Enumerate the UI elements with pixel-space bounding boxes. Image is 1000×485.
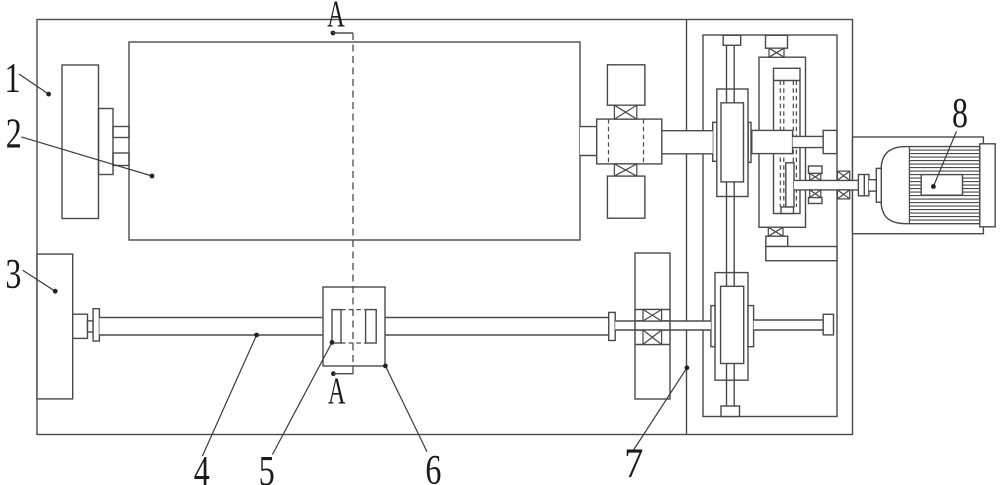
- svg-text:A: A: [328, 371, 346, 413]
- svg-text:1: 1: [5, 56, 21, 102]
- svg-text:5: 5: [259, 449, 275, 485]
- svg-text:3: 3: [5, 252, 21, 298]
- svg-text:2: 2: [6, 112, 22, 158]
- svg-text:A: A: [327, 0, 345, 36]
- svg-text:6: 6: [425, 448, 441, 485]
- svg-text:7: 7: [624, 441, 643, 485]
- svg-text:8: 8: [952, 91, 968, 137]
- svg-text:4: 4: [194, 449, 210, 485]
